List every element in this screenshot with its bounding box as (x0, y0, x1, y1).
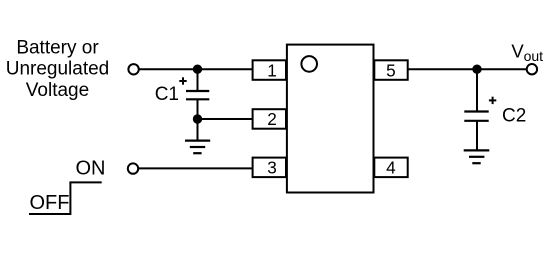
wire: C1 bottom plate down to ground (197, 99, 199, 141)
IC body U1 (287, 45, 374, 193)
svg-text:2: 2 (267, 109, 277, 129)
svg-text:Battery or: Battery or (16, 37, 99, 58)
svg-text:ON: ON (76, 157, 106, 179)
capacitor C2 plates (464, 112, 488, 121)
node junction: C1 bottom / pin 2 node (193, 114, 202, 123)
C1 polarity plus sign (179, 77, 186, 84)
pin 1 box (253, 60, 286, 80)
svg-text:C2: C2 (502, 106, 526, 127)
wire: pin 5 to output terminal (407, 68, 528, 70)
output terminal (open circle) (527, 64, 537, 74)
svg-text:V: V (511, 40, 524, 61)
node label: Battery or Unregulated Voltage (6, 37, 110, 101)
on/off step waveform (29, 182, 102, 214)
svg-text:OFF: OFF (30, 192, 70, 214)
wire: on/off terminal to pin 3 (136, 167, 253, 169)
svg-text:3: 3 (267, 158, 277, 178)
svg-text:out: out (524, 48, 544, 64)
wire: input terminal to pin 1 (137, 68, 253, 70)
svg-text:C1: C1 (155, 84, 179, 105)
input terminal (open circle) (128, 64, 138, 74)
ground symbol (C1 / pin 2) (185, 141, 210, 154)
wire: output node down to C2 top plate (476, 69, 478, 111)
capacitor C1 plates (186, 91, 209, 99)
svg-text:1: 1 (267, 60, 277, 80)
pin 5 box (374, 60, 407, 80)
wire: C1 bottom node to pin 2 (198, 118, 254, 120)
wire: input node down to C1 top plate (197, 69, 199, 91)
node junction: input node (C1 top) (193, 65, 202, 74)
ground symbol (C2) (464, 150, 490, 163)
pin 4 box (374, 158, 407, 178)
pin 3 box (253, 158, 286, 178)
node junction: output node (C2 top) (472, 65, 481, 74)
wire: C2 bottom plate down to ground (476, 121, 478, 150)
svg-text:4: 4 (386, 158, 396, 178)
pin 2 box (253, 109, 286, 129)
IC pin-1 indicator circle (301, 56, 317, 72)
svg-text:Unregulated: Unregulated (6, 59, 110, 80)
svg-text:5: 5 (386, 60, 396, 80)
svg-text:Voltage: Voltage (26, 80, 89, 101)
C2 polarity plus sign (489, 97, 496, 104)
on/off input terminal (open circle) (128, 163, 138, 173)
